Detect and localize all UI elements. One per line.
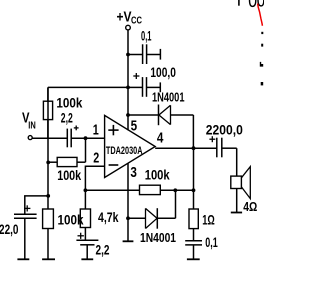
polarity + of C2 <box>133 73 139 79</box>
wire feedback <box>85 189 139 191</box>
polarity + of C5 <box>78 233 84 239</box>
wire node A column <box>47 87 49 209</box>
op-amp - input mark <box>109 164 119 166</box>
resistor R4 100k feedback <box>140 185 194 194</box>
stray red annotation line <box>258 4 263 26</box>
speaker LS 4R <box>231 167 251 213</box>
ground pin3 <box>123 240 134 242</box>
node Vcc/C2 junction <box>126 86 130 90</box>
op-amp + input mark <box>108 125 118 135</box>
node output/diode branch <box>192 146 196 150</box>
wire input <box>32 137 67 139</box>
node zobel junction <box>192 188 196 192</box>
capacitor C3 2,2 input coupling <box>67 129 104 148</box>
wire to C4 <box>25 196 48 214</box>
ground speaker <box>231 212 242 214</box>
node pin3/D2 junction <box>126 216 130 220</box>
power terminal +Vcc <box>126 25 131 30</box>
resistor R2 100k bias-to-input <box>48 157 77 166</box>
label +Vcc <box>117 8 143 26</box>
capacitor C7 2200,0 output <box>217 138 237 176</box>
ground C4 <box>17 258 29 260</box>
resistor R3 100k bias lower <box>43 209 54 259</box>
capacitor C5 2,2 <box>76 240 98 259</box>
node A / R2 junction <box>46 161 50 165</box>
wire Vcc rail <box>127 30 129 130</box>
polarity + of C7 <box>209 136 215 142</box>
wire zobel leg <box>193 148 195 209</box>
wire pin2 stub <box>85 166 104 190</box>
resistor R1 100k <box>43 87 52 138</box>
capacitor C4 22,0 <box>14 214 37 259</box>
wire pin3 ground line <box>127 164 129 242</box>
wire bias rail from node A to Vcc <box>48 86 128 88</box>
polarity + of C4 <box>24 205 30 211</box>
label Vin <box>22 110 36 132</box>
wire pin1 node down to R2 <box>85 138 87 162</box>
capacitor C2 100,0 <box>128 77 160 97</box>
node Vcc/diode junction <box>126 113 130 117</box>
polarity + of C3 <box>74 126 79 131</box>
stray text fragment top edge <box>239 0 264 6</box>
ground C5 <box>81 258 93 260</box>
capacitor C1 0,1 <box>128 44 160 64</box>
resistor R5 4,7k <box>80 190 90 240</box>
terminal Vin <box>28 136 32 140</box>
resistor R6 1R <box>189 209 198 241</box>
diode D1 1N4001 top <box>128 105 193 149</box>
stray marks right edge <box>260 32 264 86</box>
node Vcc/C1 junction <box>126 53 130 57</box>
capacitor C6 0,1 zobel <box>185 241 202 259</box>
ground R3 <box>42 258 55 260</box>
node D2 junction <box>173 188 177 192</box>
node pin1 junction <box>84 136 88 140</box>
node feedback junction <box>84 188 88 192</box>
node A / C4 junction <box>46 194 50 198</box>
wire output <box>155 147 216 149</box>
diode D2 1N4001 bottom <box>128 190 176 228</box>
op-amp U1 TDA2030A <box>105 115 156 177</box>
ground C6 <box>187 258 200 260</box>
